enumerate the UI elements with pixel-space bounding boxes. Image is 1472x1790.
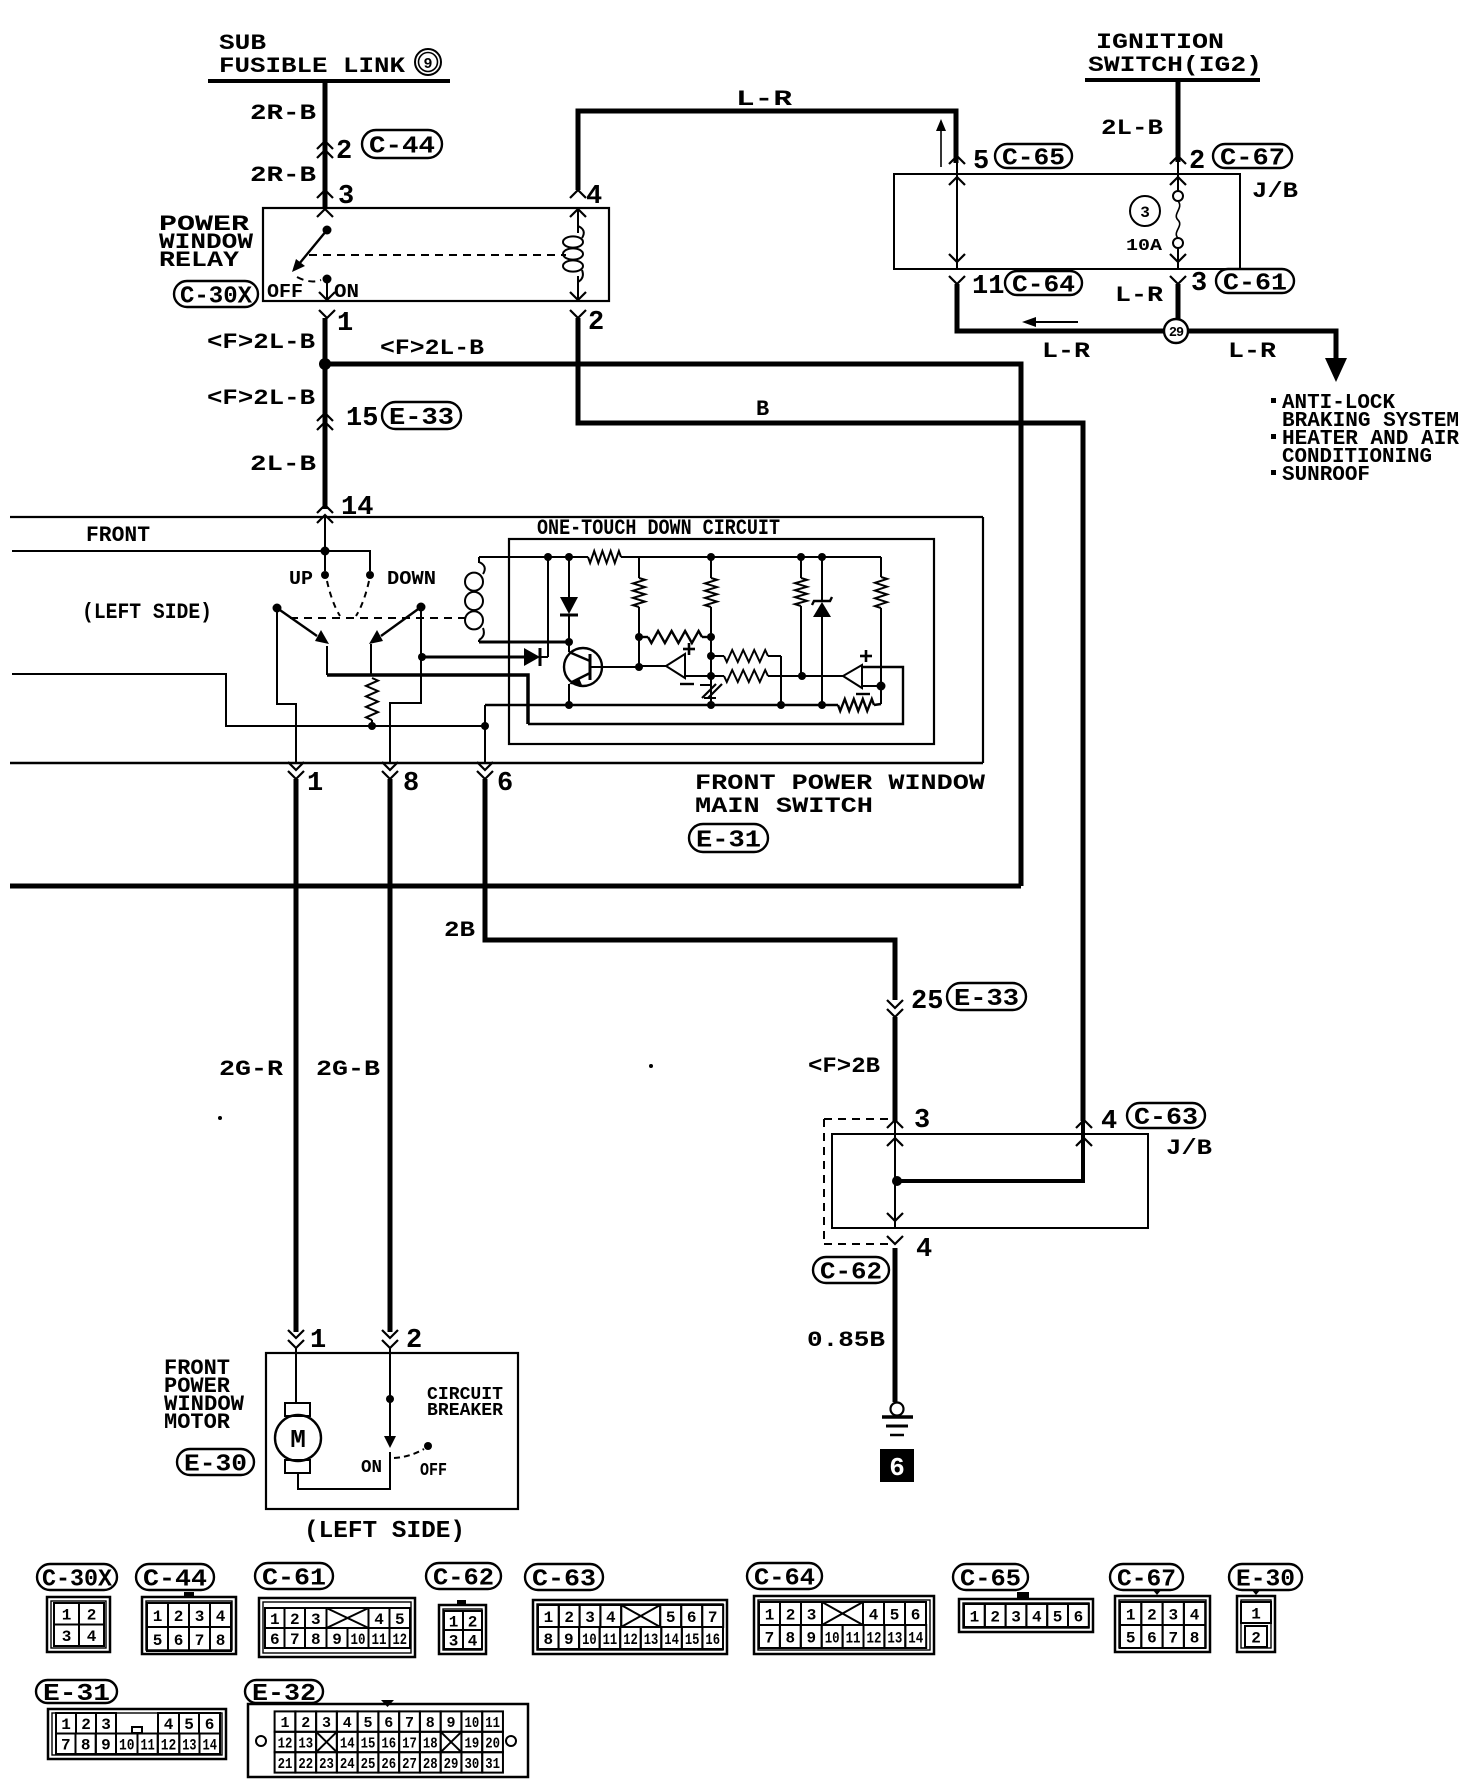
wire pin 14 to UP contact bbox=[324, 517, 326, 571]
svg-text:E-33: E-33 bbox=[389, 405, 454, 432]
node breaker top bbox=[386, 1395, 394, 1403]
connector E-33 bubble bbox=[382, 402, 461, 432]
svg-text:4: 4 bbox=[1032, 1608, 1042, 1626]
junction node on pin14 wire bbox=[321, 547, 330, 556]
connector C-62 bubble bbox=[813, 1257, 889, 1287]
svg-text:8: 8 bbox=[216, 1632, 226, 1650]
svg-text:8: 8 bbox=[81, 1737, 91, 1755]
motor pin 1 chevrons bbox=[288, 1330, 304, 1348]
svg-text:SWITCH(IG2): SWITCH(IG2) bbox=[1088, 53, 1262, 78]
svg-text:3: 3 bbox=[1168, 1606, 1178, 1624]
wire 2B inside junction block 2 bbox=[894, 1121, 896, 1228]
resistor Ra op1 plus to ground rail bbox=[711, 650, 781, 705]
svg-text:3: 3 bbox=[1191, 269, 1207, 299]
svg-text:27: 27 bbox=[402, 1756, 417, 1773]
wire 2G-B pin8 to motor bbox=[388, 779, 393, 1332]
svg-text:1: 1 bbox=[337, 309, 353, 339]
svg-text:7: 7 bbox=[195, 1632, 205, 1650]
dashed connector C-62 outline bbox=[824, 1119, 888, 1244]
svg-text:3: 3 bbox=[195, 1608, 205, 1626]
fusible link bus bar bbox=[208, 79, 450, 83]
node zener rail A bbox=[818, 701, 826, 709]
svg-text:12: 12 bbox=[623, 1631, 638, 1649]
svg-text:20: 20 bbox=[485, 1735, 500, 1752]
one-touch down circuit box bbox=[509, 539, 934, 744]
svg-text:16: 16 bbox=[705, 1631, 720, 1649]
current direction arrow up bbox=[936, 119, 946, 167]
wire pin1 to motor bbox=[295, 1348, 297, 1403]
wire left pivot to pin 1 bbox=[277, 608, 296, 763]
svg-text:1: 1 bbox=[307, 769, 323, 799]
svg-text:14: 14 bbox=[908, 1629, 923, 1647]
relay switch arm (OFF position) bbox=[292, 230, 327, 272]
svg-text:10: 10 bbox=[464, 1715, 479, 1732]
DOWN contact node bbox=[366, 571, 374, 579]
wire UP arm to common rail bbox=[326, 646, 328, 675]
wire pin 6 riser bbox=[484, 705, 486, 763]
ground symbol bbox=[882, 1403, 913, 1436]
connector E-32 pinout box bbox=[248, 1700, 528, 1777]
node D1 anode tap bbox=[418, 653, 426, 661]
svg-text:2: 2 bbox=[990, 1608, 1000, 1626]
relay pin 1 chevrons bbox=[319, 292, 335, 318]
connector E-31 pinout box bbox=[48, 1709, 226, 1759]
svg-text:4: 4 bbox=[586, 182, 602, 212]
junction block box bbox=[894, 174, 1240, 269]
wire B from relay pin 2 bbox=[578, 318, 1083, 1121]
svg-text:11: 11 bbox=[372, 1631, 387, 1649]
wire DOWN arm to resistor bbox=[370, 644, 372, 675]
svg-text:C-62: C-62 bbox=[820, 1260, 882, 1287]
fuse element 10A bbox=[1173, 162, 1183, 269]
svg-text:30: 30 bbox=[464, 1756, 479, 1773]
svg-text:ON: ON bbox=[361, 1458, 382, 1478]
svg-text:MAIN SWITCH: MAIN SWITCH bbox=[695, 794, 873, 819]
switch pin 6 chevrons bbox=[477, 762, 493, 779]
relay switch dashed throw to ON contact bbox=[297, 277, 321, 281]
svg-text:13: 13 bbox=[298, 1735, 313, 1752]
UP switch arm with arrow bbox=[277, 608, 329, 644]
svg-text:6: 6 bbox=[911, 1606, 921, 1624]
node R3 op1 minus bbox=[707, 672, 715, 680]
svg-text:9: 9 bbox=[806, 1629, 816, 1647]
svg-text:8: 8 bbox=[786, 1629, 796, 1647]
wire front input to DOWN contact bbox=[12, 551, 370, 571]
svg-text:DOWN: DOWN bbox=[387, 568, 436, 590]
splice node junction block 2 bbox=[892, 1176, 902, 1186]
op-amp U1 bbox=[640, 643, 695, 684]
svg-text:UP: UP bbox=[289, 568, 313, 590]
svg-text:1: 1 bbox=[280, 1715, 289, 1732]
connector E-32 pinout bubble bbox=[245, 1680, 323, 1708]
svg-text:26: 26 bbox=[381, 1756, 396, 1773]
svg-text:4: 4 bbox=[916, 1235, 932, 1265]
dashed throw DOWN bbox=[356, 581, 369, 616]
ignition switch bus bar bbox=[1085, 78, 1260, 82]
one-touch top rail bbox=[479, 551, 881, 563]
svg-text:6: 6 bbox=[1147, 1629, 1157, 1647]
svg-text:1: 1 bbox=[1251, 1605, 1261, 1623]
svg-text:J/B: J/B bbox=[1166, 1136, 1212, 1161]
wire D1 cathode riser bbox=[547, 557, 549, 657]
connector E-33 pin 15 chevrons bbox=[317, 413, 333, 430]
fuse 3 circled label bbox=[1130, 196, 1160, 226]
svg-text:C-61: C-61 bbox=[1223, 271, 1287, 298]
connector E-31 bubble bbox=[689, 824, 768, 855]
svg-text:11: 11 bbox=[972, 272, 1004, 302]
svg-text:3: 3 bbox=[807, 1606, 817, 1624]
svg-text:(LEFT SIDE): (LEFT SIDE) bbox=[304, 1518, 465, 1545]
svg-text:5: 5 bbox=[1053, 1608, 1063, 1626]
connector E-33 pin 25 chevrons bbox=[887, 1000, 903, 1017]
transistor Q1 bbox=[564, 642, 639, 705]
wire left input rail bbox=[12, 674, 485, 726]
svg-text:23: 23 bbox=[319, 1756, 334, 1773]
connector C-30X pinout bubble bbox=[37, 1564, 117, 1594]
relay switch pivot node bbox=[323, 226, 332, 235]
svg-text:8: 8 bbox=[426, 1715, 435, 1732]
svg-text:6: 6 bbox=[174, 1632, 184, 1650]
pin 5 exit chevrons inside box bbox=[949, 254, 965, 284]
wire pin 3 down to splice 29 bbox=[1176, 284, 1181, 319]
relay coil L1 bbox=[563, 208, 584, 301]
dashed link switch to coil bbox=[290, 617, 466, 619]
wire F 2B down bbox=[893, 1017, 898, 1121]
connector C-63 pin 4 chevrons bbox=[1076, 1120, 1092, 1146]
junction block 2 pin 3 chevrons bbox=[887, 1120, 903, 1146]
circuit breaker lower contact bbox=[389, 1452, 391, 1461]
svg-text:IGNITION: IGNITION bbox=[1096, 30, 1224, 55]
op2 minus input link bbox=[862, 685, 881, 687]
connector C-65 bubble bbox=[995, 144, 1072, 173]
svg-text:3: 3 bbox=[1011, 1608, 1021, 1626]
connector C-30X bubble bbox=[174, 281, 258, 311]
svg-text:5: 5 bbox=[890, 1606, 900, 1624]
svg-text:15: 15 bbox=[685, 1631, 700, 1649]
svg-text:6: 6 bbox=[497, 769, 513, 799]
svg-text:1: 1 bbox=[970, 1608, 980, 1626]
svg-text:8: 8 bbox=[1190, 1629, 1200, 1647]
svg-text:14: 14 bbox=[203, 1737, 218, 1755]
relay pin 4 chevrons bbox=[570, 190, 586, 217]
svg-text:15: 15 bbox=[361, 1735, 376, 1752]
svg-text:C-44: C-44 bbox=[143, 1567, 207, 1594]
svg-text:6: 6 bbox=[384, 1715, 393, 1732]
svg-text:6: 6 bbox=[889, 1453, 905, 1483]
svg-text:3: 3 bbox=[914, 1106, 930, 1136]
svg-text:25: 25 bbox=[911, 987, 943, 1017]
connector C-62 pinout bubble bbox=[426, 1563, 501, 1593]
connector E-30 bubble bbox=[177, 1449, 254, 1479]
svg-text:2: 2 bbox=[406, 1326, 422, 1356]
svg-text:1: 1 bbox=[1126, 1606, 1136, 1624]
svg-text:11: 11 bbox=[141, 1737, 155, 1755]
node coil-collector junction bbox=[565, 638, 573, 646]
node rail pin6 bbox=[481, 722, 489, 730]
connector C-63 pinout bubble bbox=[525, 1564, 603, 1594]
relay switch-coil dashed link bbox=[309, 254, 566, 256]
svg-text:31: 31 bbox=[485, 1756, 500, 1773]
svg-text:1: 1 bbox=[310, 1326, 326, 1356]
svg-text:9: 9 bbox=[423, 56, 432, 73]
svg-text:13: 13 bbox=[887, 1629, 902, 1647]
svg-text:13: 13 bbox=[644, 1631, 659, 1649]
svg-text:E-30: E-30 bbox=[1236, 1567, 1295, 1594]
ground reference 6 black box bbox=[880, 1449, 914, 1483]
connector C-65 pin 5 chevrons bbox=[949, 156, 965, 185]
wire right pivot to diode and pin 8 bbox=[390, 607, 421, 763]
svg-text:FRONT: FRONT bbox=[86, 523, 150, 548]
svg-text:L-R: L-R bbox=[1042, 339, 1091, 364]
rail A lower bbox=[485, 699, 881, 711]
wire F 2L-B to the right bbox=[325, 364, 1021, 886]
svg-text:ONE-TOUCH DOWN CIRCUIT: ONE-TOUCH DOWN CIRCUIT bbox=[537, 516, 780, 541]
svg-text:M: M bbox=[290, 1425, 306, 1455]
svg-text:C-65: C-65 bbox=[1002, 146, 1065, 173]
svg-text:L-R: L-R bbox=[1115, 283, 1164, 308]
svg-text:19: 19 bbox=[464, 1735, 479, 1752]
UP switch arm pivot bbox=[273, 604, 282, 613]
node resistor bottom bbox=[368, 722, 376, 730]
svg-text:5: 5 bbox=[666, 1609, 676, 1627]
wire 2B from pin 6 bbox=[485, 779, 895, 1000]
wire ON contact to relay pin 1 bbox=[326, 279, 328, 301]
svg-text:2: 2 bbox=[1147, 1606, 1157, 1624]
wire 2L-B relay pin1 down to switch pin 14 bbox=[323, 318, 328, 509]
connector C-44 bubble bbox=[362, 130, 442, 161]
connector C-44 pinout box bbox=[142, 1592, 236, 1654]
svg-text:2: 2 bbox=[588, 308, 604, 338]
motor M symbol bbox=[275, 1403, 321, 1473]
circuit breaker dashed throw to OFF bbox=[394, 1449, 424, 1458]
switch pin 14 chevrons bbox=[317, 505, 333, 523]
svg-text:12: 12 bbox=[161, 1737, 177, 1755]
wire 2L-B from ignition switch bbox=[1176, 80, 1181, 162]
svg-text:OFF: OFF bbox=[420, 1461, 447, 1481]
svg-text:1: 1 bbox=[765, 1606, 775, 1624]
node Rh right bbox=[707, 633, 715, 641]
svg-text:8: 8 bbox=[543, 1631, 553, 1649]
resistor R4 column bbox=[795, 557, 807, 676]
svg-text:1: 1 bbox=[62, 1607, 72, 1625]
svg-text:4: 4 bbox=[87, 1628, 97, 1646]
svg-text:J/B: J/B bbox=[1252, 179, 1298, 204]
svg-text:6: 6 bbox=[205, 1716, 215, 1734]
connector E-30 pinout box bbox=[1237, 1589, 1275, 1652]
svg-text:SUB: SUB bbox=[219, 31, 266, 56]
svg-text:E-31: E-31 bbox=[696, 828, 761, 855]
node top rail zener column bbox=[818, 553, 826, 561]
node rail A emitter bbox=[565, 701, 573, 709]
svg-text:3: 3 bbox=[1140, 204, 1150, 222]
wire 2G-R pin1 to motor bbox=[294, 779, 299, 1332]
node Rb R4 junction bbox=[798, 672, 806, 680]
node R2 bottom bbox=[635, 633, 643, 641]
front power window main switch box E-31 bbox=[10, 517, 983, 763]
connector C-44 pinout bubble bbox=[136, 1564, 214, 1594]
motor box E-30 bbox=[266, 1353, 518, 1509]
svg-text:9: 9 bbox=[447, 1715, 456, 1732]
label IGNITION SWITCH (IG2) bbox=[1088, 30, 1262, 78]
svg-text:4: 4 bbox=[343, 1715, 352, 1732]
svg-text:10: 10 bbox=[582, 1631, 597, 1649]
motor pin 2 chevrons bbox=[382, 1330, 398, 1348]
circuit breaker OFF node bbox=[424, 1442, 432, 1450]
speck dot left bbox=[218, 1116, 222, 1120]
svg-text:4: 4 bbox=[1101, 1107, 1117, 1137]
fuse exit chevrons inside box bbox=[1170, 254, 1186, 284]
svg-text:11: 11 bbox=[846, 1629, 861, 1647]
svg-text:4: 4 bbox=[164, 1716, 174, 1734]
svg-text:<F>2B: <F>2B bbox=[808, 1054, 880, 1079]
op-amp U2 bbox=[843, 650, 872, 694]
node top rail D1 column bbox=[544, 553, 552, 561]
svg-text:7: 7 bbox=[765, 1629, 775, 1647]
wire pin5 to pin11 inside junction block bbox=[956, 162, 958, 269]
svg-text:5: 5 bbox=[973, 147, 989, 177]
label POWER WINDOW RELAY bbox=[159, 212, 254, 273]
connector C-44 pin 2 chevrons bbox=[317, 141, 333, 158]
svg-text:21: 21 bbox=[278, 1756, 293, 1773]
node top rail R4 column bbox=[797, 553, 805, 561]
node Q1 base op-amp line bbox=[635, 663, 643, 671]
splice node F 2L-B bbox=[319, 358, 331, 370]
connector C-61 bubble bbox=[1216, 269, 1294, 298]
svg-text:12: 12 bbox=[867, 1629, 882, 1647]
svg-text:2G-B: 2G-B bbox=[316, 1057, 380, 1082]
relay ON contact node bbox=[323, 275, 332, 284]
switch pin 8 chevrons bbox=[382, 762, 398, 779]
svg-text:7: 7 bbox=[61, 1737, 71, 1755]
svg-text:2: 2 bbox=[1251, 1629, 1261, 1647]
connector C-64 bubble bbox=[1005, 271, 1082, 300]
node R5 op2 minus bbox=[877, 682, 886, 691]
svg-text:8: 8 bbox=[403, 769, 419, 799]
DOWN switch arm pivot bbox=[417, 603, 426, 612]
svg-text:E-33: E-33 bbox=[954, 986, 1019, 1013]
svg-text:E-31: E-31 bbox=[43, 1681, 110, 1708]
svg-text:2: 2 bbox=[290, 1611, 300, 1629]
DOWN switch arm with arrow bbox=[369, 607, 421, 644]
svg-text:12: 12 bbox=[278, 1735, 293, 1752]
svg-text:4: 4 bbox=[869, 1606, 879, 1624]
svg-text:C-63: C-63 bbox=[1134, 1105, 1198, 1132]
svg-text:11: 11 bbox=[485, 1715, 500, 1732]
svg-text:2: 2 bbox=[468, 1613, 478, 1631]
wire 0.85B to ground bbox=[893, 1248, 898, 1402]
svg-text:C-44: C-44 bbox=[369, 134, 435, 161]
svg-text:11: 11 bbox=[603, 1631, 618, 1649]
svg-text:9: 9 bbox=[564, 1631, 574, 1649]
svg-text:2R-B: 2R-B bbox=[250, 101, 316, 126]
svg-text:ON: ON bbox=[334, 281, 359, 303]
svg-text:24: 24 bbox=[340, 1756, 355, 1773]
connector E-30 pinout bubble bbox=[1229, 1564, 1302, 1594]
svg-text:C-65: C-65 bbox=[960, 1567, 1021, 1594]
UP contact node bbox=[321, 571, 329, 579]
connector C-64 pinout bubble bbox=[747, 1563, 822, 1593]
svg-text:7: 7 bbox=[708, 1609, 718, 1627]
svg-text:C-62: C-62 bbox=[433, 1566, 494, 1593]
wire coil bottom to transistor collector node bbox=[479, 641, 569, 644]
svg-text:15: 15 bbox=[346, 404, 378, 434]
connector C-62 pinout box bbox=[439, 1600, 486, 1654]
svg-text:14: 14 bbox=[340, 1735, 355, 1752]
node top rail R3 column bbox=[707, 553, 715, 561]
svg-text:2L-B: 2L-B bbox=[1101, 116, 1163, 141]
thick wire bottom bus to left bbox=[10, 884, 1021, 889]
ground hatch symbol bbox=[700, 682, 722, 705]
svg-text:14: 14 bbox=[341, 493, 373, 523]
svg-text:7: 7 bbox=[405, 1715, 414, 1732]
svg-text:7: 7 bbox=[1168, 1629, 1178, 1647]
svg-text:0.85B: 0.85B bbox=[807, 1328, 885, 1353]
svg-text:SUNROOF: SUNROOF bbox=[1282, 464, 1370, 487]
svg-text:1: 1 bbox=[61, 1716, 71, 1734]
svg-text:5: 5 bbox=[395, 1611, 405, 1629]
svg-text:3: 3 bbox=[449, 1632, 459, 1650]
svg-text:BREAKER: BREAKER bbox=[427, 1401, 503, 1421]
svg-text:3: 3 bbox=[311, 1611, 321, 1629]
svg-text:2: 2 bbox=[301, 1715, 310, 1732]
svg-text:5: 5 bbox=[364, 1715, 373, 1732]
svg-text:<F>2L-B: <F>2L-B bbox=[207, 330, 315, 355]
svg-text:2B: 2B bbox=[444, 918, 475, 943]
svg-text:10: 10 bbox=[119, 1737, 135, 1755]
svg-text:2G-R: 2G-R bbox=[219, 1057, 284, 1082]
svg-text:OFF: OFF bbox=[267, 281, 303, 303]
svg-text:6: 6 bbox=[1074, 1608, 1084, 1626]
wire motor to breaker bbox=[298, 1461, 390, 1489]
svg-text:10: 10 bbox=[825, 1629, 840, 1647]
relay pin 2 chevrons bbox=[570, 292, 586, 318]
svg-text:4: 4 bbox=[606, 1609, 616, 1627]
svg-text:6: 6 bbox=[270, 1631, 280, 1649]
connector C-67 bubble bbox=[1213, 144, 1292, 173]
svg-text:1: 1 bbox=[270, 1611, 280, 1629]
svg-text:2: 2 bbox=[1189, 147, 1205, 177]
wire L-R from pin 11 to splice 29 bbox=[957, 284, 1164, 331]
node top rail D2 column bbox=[565, 553, 573, 561]
svg-text:6: 6 bbox=[687, 1609, 697, 1627]
svg-text:1: 1 bbox=[153, 1608, 163, 1626]
circuit breaker contact arrow bbox=[384, 1436, 396, 1448]
svg-text:(LEFT SIDE): (LEFT SIDE) bbox=[82, 600, 212, 625]
svg-text:13: 13 bbox=[182, 1737, 196, 1755]
label ANTI-LOCK BRAKING SYSTEM HEATER AND AIR CONDITIONING SUNROOF bbox=[1271, 392, 1459, 487]
svg-text:28: 28 bbox=[423, 1756, 438, 1773]
svg-text:2R-B: 2R-B bbox=[250, 163, 316, 188]
svg-text:L-R: L-R bbox=[1228, 339, 1277, 364]
wire L-R from relay pin 4 to junction block bbox=[578, 111, 956, 190]
connector C-61 pinout bubble bbox=[255, 1563, 333, 1593]
svg-text:RELAY: RELAY bbox=[159, 248, 240, 273]
one-touch relay coil L2 bbox=[465, 557, 485, 642]
svg-text:C-67: C-67 bbox=[1220, 146, 1285, 173]
splice 29 circled bbox=[1164, 319, 1188, 343]
svg-text:5: 5 bbox=[153, 1632, 163, 1650]
svg-text:18: 18 bbox=[423, 1735, 438, 1752]
dashed throw UP bbox=[327, 581, 340, 616]
node R3 op1 plus bbox=[707, 652, 715, 660]
svg-text:4: 4 bbox=[374, 1611, 384, 1629]
junction block 2 exit chevrons bbox=[887, 1213, 903, 1244]
svg-text:3: 3 bbox=[101, 1716, 111, 1734]
connector C-61 pinout box bbox=[259, 1598, 415, 1657]
connector C-67 pinout bubble bbox=[1110, 1564, 1183, 1594]
resistor Rh horizontal between R2 and R3 bbox=[639, 631, 711, 643]
svg-text:8: 8 bbox=[311, 1631, 321, 1649]
